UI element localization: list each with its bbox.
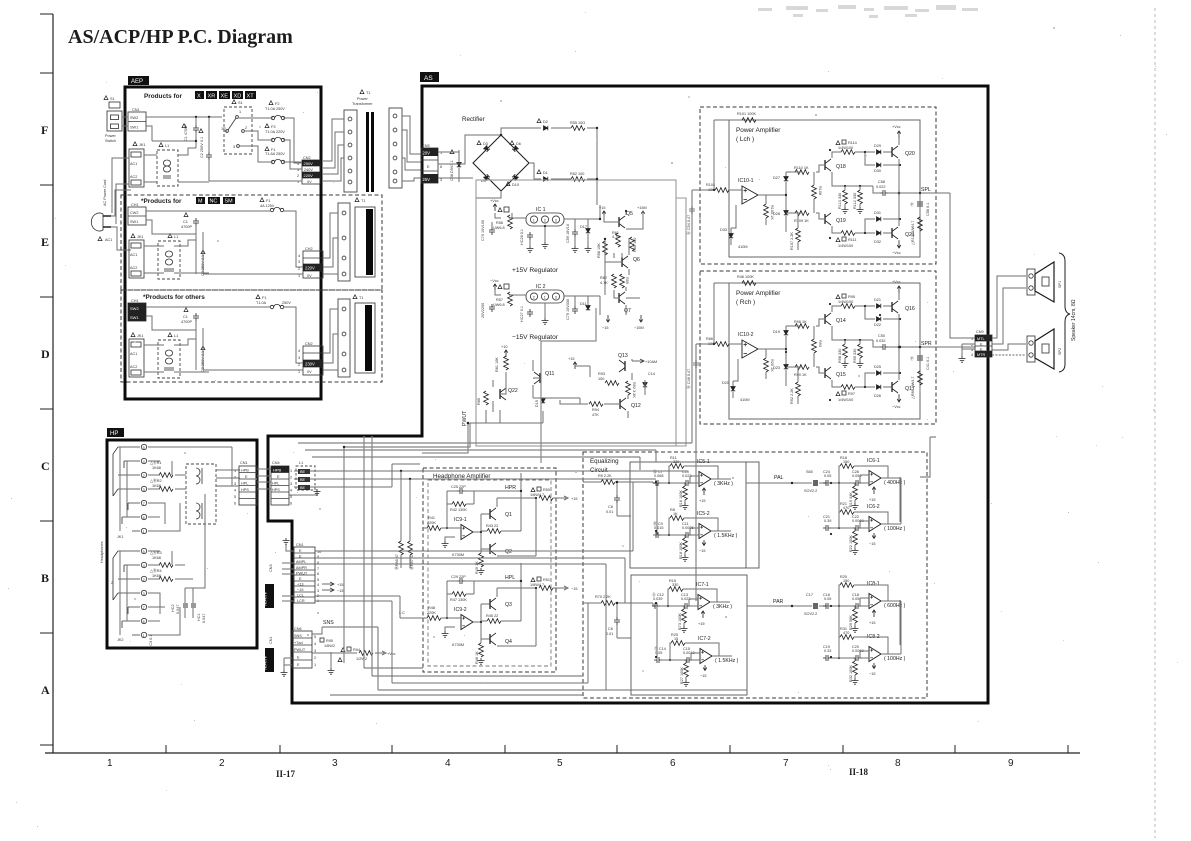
svg-text:△ⒷR4: △ⒷR4 [150, 568, 162, 573]
svg-text:0.039: 0.039 [653, 597, 663, 601]
svg-text:CN1: CN1 [296, 543, 304, 547]
wire LCR run [315, 601, 588, 683]
svg-text:R49 1K: R49 1K [475, 561, 479, 574]
resistor 119 [918, 217, 923, 231]
ground under R16 [682, 503, 689, 509]
wire channel b [305, 450, 656, 462]
transistor Q11 [534, 372, 540, 384]
svg-text:△R119 UW4.7: △R119 UW4.7 [911, 221, 915, 245]
wire eq bottom channel [583, 689, 747, 691]
svg-text:R32 100K: R32 100K [849, 665, 853, 682]
JK1 label [133, 142, 137, 146]
wire CN4 E long run [310, 478, 656, 480]
svg-text:Q18: Q18 [836, 164, 846, 170]
L1 choke dashed box [157, 150, 178, 186]
C6 branch [617, 603, 631, 638]
svg-text:HC27 0.1: HC27 0.1 [520, 306, 524, 322]
svg-text:2: 2 [245, 126, 247, 130]
svg-text:0.032: 0.032 [876, 339, 886, 343]
wire SP2 return [992, 354, 1026, 356]
svg-text:R93: R93 [598, 372, 605, 376]
PAR wire [747, 605, 827, 607]
svg-text:C29 22P: C29 22P [451, 575, 466, 579]
svg-text:1/4W100: 1/4W100 [838, 146, 853, 150]
feedback loop wires IC9-1 [447, 491, 474, 528]
zener Z2 box [498, 285, 502, 289]
junction dots misc [343, 127, 921, 658]
svg-text:3: 3 [298, 260, 300, 264]
svg-text:+15: +15 [699, 499, 705, 503]
opamp ground IC9-2 [445, 627, 455, 631]
svg-text:E: E [297, 663, 300, 667]
transistor Q20 [892, 146, 898, 158]
svg-text:SW2: SW2 [130, 116, 138, 120]
svg-text:+15M: +15M [637, 206, 647, 210]
svg-text:Q22: Q22 [508, 388, 518, 394]
wire selector 2 to F3 [245, 131, 273, 140]
bridge rectifier diamond [473, 135, 529, 191]
rail vertical right of rectifier [596, 128, 598, 205]
wire SPL to SP1 [992, 276, 1026, 338]
svg-text:BE: BE [300, 486, 306, 490]
svg-text:1: 1 [143, 530, 145, 534]
bridge diode D3 [477, 141, 481, 145]
svg-text:R47 130K: R47 130K [450, 598, 467, 602]
feedback loop wire IC8-2 [839, 637, 901, 658]
L1 ferrite bead block [296, 466, 315, 490]
IC1 capsule [526, 213, 564, 226]
svg-text:4: 4 [445, 758, 451, 769]
svg-text:9: 9 [1008, 758, 1014, 769]
svg-text:R92 3.3K: R92 3.3K [632, 382, 636, 398]
fuse F1 sec2 [260, 198, 264, 202]
svg-text:+C3 0.1: +C3 0.1 [149, 635, 153, 648]
svg-text:( Rch ): ( Rch ) [736, 299, 755, 306]
T1 winding strip sec3 [338, 299, 350, 377]
ground under C59 [574, 237, 576, 246]
svg-text:R108: R108 [818, 186, 822, 195]
cap C56 [917, 201, 923, 207]
svg-text:0.022: 0.022 [876, 185, 886, 189]
svg-text:5: 5 [143, 550, 145, 554]
left ruler line [52, 14, 54, 753]
tag M [196, 197, 205, 204]
zener Z1 box [498, 208, 502, 212]
transistor Q1 [490, 508, 496, 520]
svg-text:4.7K: 4.7K [600, 281, 608, 285]
LC input wire [400, 617, 423, 619]
AC cord wires [111, 190, 131, 250]
svg-text:R60 100: R60 100 [633, 238, 637, 252]
JK1 jack sec3 [131, 333, 135, 337]
svg-text:3: 3 [555, 219, 557, 223]
svg-text:0.05: 0.05 [655, 651, 662, 655]
wire F2 to CN2 [283, 118, 302, 163]
svg-text:Speaker 14cm, 8Ω: Speaker 14cm, 8Ω [1071, 299, 1077, 341]
svg-text:F1: F1 [266, 199, 270, 203]
svg-text:R48: R48 [428, 606, 435, 610]
svg-text:2: 2 [234, 476, 236, 480]
transistor Q14 [825, 313, 831, 325]
svg-text:Q7: Q7 [624, 308, 631, 314]
svg-text:D3: D3 [483, 142, 488, 146]
S1 selector dashed box [232, 100, 236, 104]
svg-text:R92 2.2K: R92 2.2K [790, 388, 794, 404]
svg-text:IC5-2: IC5-2 [697, 511, 710, 517]
wire CN4 HPR long run [310, 470, 688, 472]
svg-text:S65: S65 [806, 470, 813, 474]
svg-text:0V: 0V [307, 370, 312, 374]
svg-text:15: 15 [674, 637, 678, 641]
svg-text:HPB: HPB [241, 469, 249, 473]
SP1 cone mark [1042, 277, 1049, 286]
svg-text:+Vcc: +Vcc [892, 125, 901, 129]
svg-text:R46 100K: R46 100K [737, 275, 754, 279]
T1 power transformer label [360, 90, 364, 94]
svg-text:C17: C17 [806, 593, 813, 597]
svg-text:−15V Regulator: −15V Regulator [512, 334, 559, 341]
input wire IC7-2 [662, 653, 700, 660]
svg-text:2: 2 [143, 578, 145, 582]
svg-text:PWUT: PWUT [296, 572, 308, 576]
svg-text:7: 7 [143, 502, 145, 506]
svg-text:T1: T1 [359, 296, 363, 300]
T1 secondary connector strip [389, 108, 402, 188]
svg-text:Power: Power [357, 97, 368, 101]
junction on HPR run [400, 470, 402, 472]
HP internal wires [148, 447, 240, 531]
wire PWUT run [315, 564, 606, 690]
svg-text:3: 3 [143, 592, 145, 596]
svg-text:AC2: AC2 [130, 175, 137, 179]
output arrow &#8722;15 [553, 586, 568, 590]
transistor Q4 [490, 633, 496, 645]
link right upper quads [827, 483, 841, 528]
svg-text:R41: R41 [428, 516, 435, 520]
diode D2 [537, 119, 541, 123]
top rail wires Rch [832, 306, 900, 319]
svg-text:Ⓝ C46 0.47: Ⓝ C46 0.47 [686, 369, 691, 389]
wire JK1 AC1 to L1 [144, 154, 157, 156]
wire IC6 to PA feed [920, 437, 936, 477]
bias chain wire Rch [785, 326, 787, 386]
svg-text:II-17: II-17 [276, 769, 296, 779]
svg-text:CN2: CN2 [303, 156, 311, 160]
emitter resistor R114 [836, 141, 840, 145]
svg-text:−15: −15 [297, 588, 303, 592]
svg-text:SNS: SNS [294, 634, 302, 638]
svg-text:R93: R93 [818, 340, 822, 347]
driver base wires Lch [786, 165, 825, 250]
svg-text:Q14: Q14 [836, 318, 846, 324]
svg-text:AC1: AC1 [105, 238, 112, 242]
svg-text:SW2: SW2 [130, 306, 139, 311]
C6 cap [614, 617, 620, 625]
resistor R18 [683, 538, 688, 552]
svg-text:C6: C6 [608, 627, 613, 631]
svg-text:F: F [41, 123, 48, 137]
svg-text:CN4: CN4 [272, 461, 280, 465]
C1 cap sec3 [184, 308, 188, 312]
resistor 89 [918, 371, 923, 385]
speaker SP2 cone [1035, 329, 1054, 369]
svg-text:5: 5 [557, 758, 563, 769]
R95 resistor [320, 638, 324, 642]
svg-text:+15: +15 [869, 498, 875, 502]
resistor R19 [853, 486, 858, 500]
svg-text:R114: R114 [848, 141, 857, 145]
resistor R61 [616, 233, 621, 247]
jack JK2 contact 5 [141, 548, 146, 553]
wire selector 3 to F1 [240, 146, 273, 162]
emitter resistor R111 [841, 231, 855, 236]
svg-text:R18 100K: R18 100K [679, 542, 683, 559]
svg-text:0.39: 0.39 [824, 519, 831, 523]
svg-text:7: 7 [143, 606, 145, 610]
resistor R112 [858, 190, 863, 204]
svg-text:D27: D27 [773, 176, 780, 180]
left ruler top tick [40, 13, 53, 15]
headphone amp outer dashed box [423, 468, 556, 672]
svg-text:D29: D29 [874, 144, 881, 148]
PA Rch dashed box [700, 271, 936, 424]
bridge diode D6 [510, 141, 514, 145]
svg-text:3: 3 [298, 356, 300, 360]
wire bridge top to D2 rail [501, 128, 597, 135]
wire JK1 to plug drop [112, 158, 129, 224]
svg-text:4: 4 [971, 353, 973, 357]
resistor R99 [858, 344, 863, 358]
svg-text:1/6W4.7: 1/6W4.7 [530, 583, 544, 587]
svg-text:R27 100K: R27 100K [680, 667, 684, 684]
R86/R87 stems [401, 555, 410, 568]
svg-text:SPL: SPL [921, 187, 931, 193]
SP2 cone mark [1042, 344, 1049, 353]
svg-text:D32: D32 [874, 240, 881, 244]
C2 cap [206, 152, 212, 160]
svg-text:C2 250V 0.1: C2 250V 0.1 [200, 137, 204, 158]
mid wire IC9-2 [481, 620, 521, 622]
svg-text:( 1.5KHz ): ( 1.5KHz ) [715, 658, 739, 664]
R87 resistor [408, 541, 413, 555]
S1 label over power switch [104, 96, 108, 100]
junction dot PAR [791, 605, 793, 607]
AC plug symbol [91, 213, 103, 231]
svg-text:UW6.8: UW6.8 [493, 303, 505, 307]
svg-text:HC1: HC1 [197, 613, 201, 621]
SPL link into CN9 [950, 336, 975, 338]
right page dashed fold line [1154, 8, 1156, 838]
wire SP1 return [992, 288, 1026, 344]
svg-text:D26: D26 [874, 394, 881, 398]
T1 label (sec3) [353, 295, 357, 299]
svg-text:230V: 230V [305, 362, 315, 367]
svg-text:C70 10V100: C70 10V100 [481, 220, 485, 241]
svg-text:1: 1 [239, 110, 241, 114]
resistor R113 [843, 190, 848, 204]
svg-text:SW1: SW1 [130, 315, 139, 320]
feedback loop wires IC9-2 [447, 581, 474, 618]
wire bridge right to D1 rail [529, 163, 597, 179]
wire JK1 AC2 to L1 [144, 181, 157, 183]
C8 branch [617, 482, 631, 516]
svg-text:R9 2.2K: R9 2.2K [598, 474, 612, 478]
svg-text:S1: S1 [110, 97, 115, 101]
svg-text:2: 2 [298, 363, 300, 367]
T1 label (sec2) [355, 198, 359, 202]
svg-text:PAL: PAL [774, 475, 784, 481]
svg-text:−15M: −15M [634, 326, 644, 330]
svg-text:IC8-1: IC8-1 [867, 581, 880, 587]
transistor Q6 [622, 256, 628, 268]
svg-text:−15: −15 [699, 549, 705, 553]
svg-text:R95: R95 [848, 295, 855, 299]
Q5 wires [604, 211, 643, 229]
input wire IC6-2 [831, 521, 869, 528]
jack JK2 contact 7 [141, 604, 146, 609]
svg-text:0.05: 0.05 [852, 597, 859, 601]
wire vertical x364 [364, 436, 423, 668]
wire L1 out to 0V bus [178, 181, 209, 183]
svg-text:C: C [41, 459, 50, 473]
tag SM [223, 197, 235, 204]
emitter resistor R97 [841, 385, 855, 390]
resistor R59 [620, 274, 625, 288]
junction C1 top [195, 116, 197, 118]
output node wire IC9-2 [473, 604, 490, 639]
svg-text:R111: R111 [848, 238, 857, 242]
svg-text:D25: D25 [874, 365, 881, 369]
svg-text:−15: −15 [869, 672, 875, 676]
svg-text:4: 4 [314, 642, 316, 646]
svg-text:SOV2.2: SOV2.2 [804, 612, 817, 616]
AS main box outline [268, 86, 988, 703]
junction C2 top [208, 116, 210, 118]
tag X [195, 91, 204, 99]
fuse F1 row [265, 147, 269, 151]
svg-text:Power: Power [105, 134, 116, 138]
wires sec2 [146, 211, 250, 234]
svg-text:1: 1 [298, 370, 300, 374]
wire SP2 feed [992, 344, 1026, 350]
input wire lower [583, 603, 657, 606]
svg-text:L1: L1 [165, 144, 169, 148]
svg-text:3: 3 [314, 649, 316, 653]
svg-text:+Vcc: +Vcc [490, 199, 499, 203]
svg-text:AC1: AC1 [130, 162, 137, 166]
svg-text:T1: T1 [366, 91, 370, 95]
Q12 wires [560, 380, 645, 418]
ground at CN9 [959, 356, 966, 362]
wire channel a [298, 190, 692, 443]
R94 wire and arrow [312, 651, 386, 655]
svg-text:R58 10K: R58 10K [597, 243, 601, 258]
mid rail wire Rch [832, 326, 898, 347]
jack JK1 contact 3 [141, 486, 146, 491]
svg-text:SW1: SW1 [130, 220, 138, 224]
CN9 ground wires [962, 344, 975, 356]
svg-text:6: 6 [143, 516, 145, 520]
svg-text:8: 8 [895, 758, 901, 769]
svg-text:T1: T1 [361, 199, 365, 203]
svg-text:CN1: CN1 [269, 636, 273, 644]
inner routing box [476, 180, 676, 446]
svg-text:AS/ACP/HP P.C. Diagram: AS/ACP/HP P.C. Diagram [68, 26, 293, 48]
svg-text:*Products for: *Products for [141, 198, 182, 205]
-15 arrow [606, 315, 610, 322]
svg-text:Power Amplifier: Power Amplifier [736, 127, 781, 134]
jack JK2 contact 3 [141, 590, 146, 595]
wires CH2 sec2 to T1 [323, 213, 338, 274]
svg-text:JK1: JK1 [137, 334, 144, 338]
MAIN tag (CN3) [265, 584, 274, 608]
bead BE 3 [298, 485, 310, 490]
resistor R27 [684, 663, 689, 677]
svg-text:R94: R94 [353, 648, 360, 652]
selector contact 3 [237, 145, 240, 148]
svg-text:4700P: 4700P [181, 225, 192, 229]
svg-text:0.05: 0.05 [824, 597, 831, 601]
svg-text:( 3KHz ): ( 3KHz ) [714, 481, 733, 487]
svg-text:ⓂR86 47: ⓂR86 47 [394, 554, 399, 570]
output resistor R51 [531, 578, 535, 582]
collector rail IC9-1 [497, 498, 536, 556]
wire channel c [312, 457, 640, 470]
outer routing line right [676, 198, 686, 446]
svg-text:C1 4700P: C1 4700P [184, 124, 188, 141]
wire vertical x372 [372, 436, 583, 676]
resistor R16 [683, 486, 688, 500]
svg-text:K730M: K730M [452, 643, 464, 647]
svg-text:2: 2 [544, 219, 546, 223]
svg-text:410M: 410M [740, 398, 750, 402]
svg-text:R97: R97 [848, 392, 855, 396]
+15 stem IC5-1 [702, 488, 706, 495]
svg-text:CH1: CH1 [131, 203, 139, 207]
svg-text:1: 1 [234, 469, 236, 473]
svg-text:L1: L1 [299, 461, 303, 465]
svg-text:R70 2.2K: R70 2.2K [595, 595, 611, 599]
transistor Q7 [619, 292, 625, 304]
svg-text:IC6-1: IC6-1 [867, 458, 880, 464]
svg-text:CH2: CH2 [305, 247, 313, 251]
svg-text:0.33: 0.33 [824, 649, 831, 653]
ground under IC1 pin2 [544, 226, 546, 242]
svg-text:C1: C1 [183, 220, 188, 224]
+15 arrow from CN3 [322, 582, 334, 586]
SPR wire [892, 346, 975, 348]
svg-text:R81 10K: R81 10K [495, 357, 499, 372]
wires around IC2 [495, 257, 605, 315]
SPL wire [892, 193, 950, 336]
svg-text:IC 1: IC 1 [536, 207, 546, 213]
T1 core sec3 [355, 303, 375, 373]
main output line Rch [898, 293, 900, 395]
jack JK2 contact 2 [141, 576, 146, 581]
cap C41 [917, 355, 923, 361]
C8 cap [614, 495, 620, 503]
IC2 capsule [526, 290, 564, 303]
svg-text:( 100Hz ): ( 100Hz ) [884, 526, 906, 532]
svg-text:Headphones: Headphones [100, 541, 104, 563]
wires CN1 to CN4 [257, 469, 271, 489]
bias chain wire Lch [785, 172, 787, 232]
svg-text:1: 1 [143, 634, 145, 638]
feedback loop wire IC5-2 [669, 518, 731, 535]
wire long vertical x696 [695, 344, 697, 601]
svg-text:Q16: Q16 [905, 306, 915, 312]
resistor R107 vertical [796, 228, 801, 242]
